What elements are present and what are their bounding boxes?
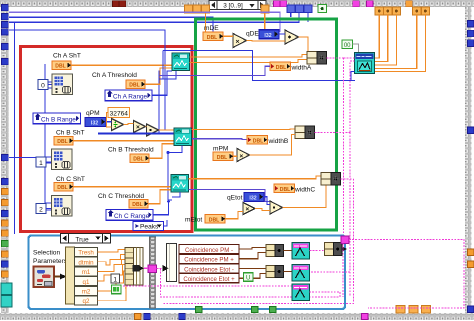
svg-text:DBL: DBL bbox=[209, 217, 219, 223]
case structure border bbox=[29, 236, 346, 310]
express VI icon 3 (Ch C) bbox=[171, 175, 189, 193]
tunnel magenta on bottom border bbox=[362, 314, 368, 320]
wire round out to right bbox=[159, 129, 193, 131]
svg-text:mDE: mDE bbox=[204, 25, 219, 32]
wire blue bus vertical inside red frame bbox=[14, 22, 16, 234]
svg-text:Ch C Range: Ch C Range bbox=[114, 213, 150, 220]
svg-text:DBL: DBL bbox=[132, 202, 142, 208]
local variable Coincidence PM minus bbox=[179, 245, 239, 254]
local variable Ch A ShT DBL bbox=[52, 61, 71, 70]
long wire violet from left tunnel to green region bbox=[9, 12, 280, 32]
wire magenta branch to express3 bbox=[123, 285, 292, 287]
tunnel magenta on top border right bbox=[353, 1, 359, 7]
tunnel orange on top border bbox=[406, 1, 412, 7]
svg-text:3 [0..9]: 3 [0..9] bbox=[223, 2, 243, 9]
wire gray 00 to VI top bbox=[353, 44, 359, 53]
sequence structure left border (film strip) bbox=[1, 7, 8, 313]
tunnel green on case bottom edge 3 bbox=[270, 307, 277, 313]
svg-text:widthC: widthC bbox=[294, 187, 315, 194]
wire magenta tunnel case top right bbox=[341, 236, 349, 244]
free orange tunnels above bottom border bbox=[396, 305, 405, 313]
wire blue range A up to icon bbox=[152, 71, 172, 95]
bundle node widthA bbox=[307, 52, 327, 65]
wires brown coincidence to compare node1 bbox=[239, 248, 266, 279]
wire orange pair entering green (chB row) bbox=[192, 128, 296, 131]
ring constant Ch C Range bbox=[106, 210, 153, 221]
wire orange ChC ShT to icon3 bbox=[73, 186, 171, 188]
svg-text:Peaks: Peaks bbox=[140, 224, 159, 231]
wire divide to multiply bbox=[124, 124, 134, 125]
wire magenta loop down right bbox=[161, 269, 341, 297]
local variable widthC DBL bbox=[274, 184, 295, 193]
unbundle row q1 bbox=[75, 277, 98, 286]
wire blue VI output to left bbox=[351, 72, 355, 81]
wire magenta widthA into VI bbox=[344, 57, 355, 59]
svg-text:DBL: DBL bbox=[129, 83, 139, 89]
inner frame divider bar bbox=[150, 237, 156, 308]
wire orange entering green (chC row) bbox=[189, 176, 322, 179]
local variable Ch C ShT DBL bbox=[54, 183, 73, 192]
wire mEtot to multiply bbox=[225, 212, 243, 219]
wires unbundle rows to build node bbox=[98, 250, 129, 301]
wire mPM to multiply bbox=[233, 155, 237, 157]
svg-text:qDE: qDE bbox=[246, 31, 259, 38]
svg-text:widthB: widthB bbox=[268, 138, 289, 145]
wire blue entering green (chC) bbox=[189, 190, 271, 202]
svg-text:×: × bbox=[136, 124, 140, 131]
tunnel green on case bottom edge 1 bbox=[196, 307, 203, 313]
sequence structure bottom border (film strip) bbox=[0, 313, 474, 320]
local variable mPM DBL bbox=[213, 152, 233, 161]
wire round out right then down bbox=[299, 37, 309, 52]
boolean constant 00 bbox=[342, 40, 353, 48]
wire multiply to round bbox=[146, 126, 147, 128]
svg-text:×: × bbox=[246, 206, 250, 213]
free orange tunnels below top border (mDE/qDE feeds) bbox=[185, 5, 269, 13]
wire orange ChC Threshold up bbox=[148, 190, 171, 204]
green boolean constant box below top border bbox=[318, 5, 326, 13]
magenta tunnel on divider bbox=[148, 265, 156, 273]
svg-text:1: 1 bbox=[39, 160, 43, 167]
wire orange ChB ShT to icon2 bbox=[73, 140, 174, 142]
wire magenta widthA down run bbox=[343, 58, 345, 236]
svg-text:Ch B Range: Ch B Range bbox=[41, 116, 76, 123]
wire magenta into express2 from run bbox=[310, 271, 351, 273]
wire blue below icon3 bbox=[172, 192, 180, 197]
wire blue entering green (chB) bbox=[192, 138, 247, 141]
wire magenta along top right to right border bbox=[349, 240, 464, 309]
svg-text:Coincidence PM +: Coincidence PM + bbox=[184, 257, 234, 264]
boolean array constant green bbox=[112, 285, 122, 294]
frame red rectangle bbox=[21, 47, 193, 232]
wire violet widthA feed bbox=[159, 66, 270, 75]
wire express1 to node3 bbox=[310, 250, 325, 252]
wire qPM into divide bbox=[105, 121, 112, 123]
svg-text:Ch A ShT: Ch A ShT bbox=[53, 53, 81, 60]
wire 2 to icon C bbox=[46, 208, 52, 210]
bundle node widthC bbox=[321, 173, 341, 186]
right border tunnels (blue) bbox=[467, 21, 474, 134]
peak detect express VI (top right) bbox=[355, 53, 375, 74]
wire magenta widthB bundle out bbox=[315, 131, 351, 133]
wire blue entering green (chA) bbox=[163, 51, 355, 81]
compare node 3 (right) bbox=[325, 243, 343, 256]
unbundle row Tresh bbox=[75, 248, 98, 257]
svg-text:mEtot: mEtot bbox=[185, 217, 202, 224]
local variable qPM I32 bbox=[85, 118, 106, 127]
ring constant Ch A Range bbox=[105, 90, 152, 101]
local variable mEtot DBL bbox=[205, 215, 225, 224]
svg-text:DBL: DBL bbox=[133, 157, 143, 163]
svg-text:2: 2 bbox=[39, 207, 43, 214]
svg-text:Ch A Range: Ch A Range bbox=[113, 93, 148, 100]
wire magenta widthC bundle out bbox=[341, 178, 354, 180]
numeric constant 1 bbox=[36, 157, 46, 167]
local variable widthA DBL bbox=[270, 62, 291, 71]
wire blue vertical cluster feed bbox=[45, 64, 51, 210]
svg-text:DBL: DBL bbox=[57, 139, 67, 145]
wire multiply B out to bundle bbox=[250, 135, 296, 156]
wire magenta into express3 bbox=[310, 292, 341, 297]
index array node (case right half) bbox=[163, 244, 177, 282]
wire blue horizontal from left tunnel y157 bbox=[9, 157, 45, 159]
boolean constant green (case) bbox=[244, 273, 254, 281]
orange dot tunnels top right group2 bbox=[413, 7, 430, 15]
svg-text:I32: I32 bbox=[264, 33, 271, 39]
numeric constant 2 bbox=[36, 204, 46, 214]
wire magenta tunnel onward bbox=[157, 268, 167, 270]
wire orange tunnel to qDE I32 bbox=[264, 13, 266, 30]
case selector label True bbox=[61, 234, 111, 244]
left border tunnels (orange) bbox=[2, 189, 9, 278]
svg-text:Coincidence PM -: Coincidence PM - bbox=[185, 247, 233, 254]
wire magenta widthA bundle out bbox=[327, 57, 344, 59]
wire blue range C bbox=[153, 202, 169, 215]
wire orange ChB Threshold bbox=[149, 144, 174, 159]
wire orange tunnel drops to peak-detect VI bbox=[375, 15, 426, 72]
sequence structure right border (film strip) bbox=[465, 7, 472, 313]
express VI coincidence 3 bbox=[292, 284, 310, 301]
wire magenta widthB down run bbox=[349, 132, 351, 296]
node3 output arrow bbox=[343, 247, 348, 252]
express VI icon 1 (Ch A) bbox=[172, 53, 190, 71]
svg-text:×: × bbox=[240, 153, 244, 160]
numeric constant 1 (case) bbox=[111, 274, 120, 283]
svg-text:qPM: qPM bbox=[86, 110, 100, 117]
svg-text:I32: I32 bbox=[249, 196, 256, 202]
tunnel dark red pair on top border bbox=[113, 1, 119, 7]
ring constant Ch B Range bbox=[33, 113, 81, 124]
orange dot tunnels top right group1 bbox=[375, 7, 401, 15]
local variable Ch A Threshold DBL bbox=[126, 80, 145, 89]
wire blue stubs from top blue tunnels bbox=[290, 12, 292, 17]
svg-text:Ch B Threshold: Ch B Threshold bbox=[108, 147, 154, 154]
wire blue thick under triangles bbox=[98, 132, 192, 134]
express VI icon 2 (Ch B) bbox=[174, 128, 192, 146]
svg-text:DBL: DBL bbox=[55, 64, 65, 70]
wire blue peaks up bbox=[164, 220, 168, 226]
local variable Coincidence Etot plus bbox=[179, 274, 239, 283]
free blue tunnels below top border bbox=[287, 5, 312, 12]
svg-text:q2: q2 bbox=[83, 298, 90, 305]
svg-text:q1: q1 bbox=[83, 279, 90, 286]
wire multiply to add bbox=[255, 209, 270, 211]
wire 1 to icon B bbox=[46, 161, 52, 163]
wire 32764 into divide bbox=[107, 113, 112, 128]
svg-text:DBL: DBL bbox=[280, 187, 290, 193]
wire subVI to unbundle with arrow bbox=[54, 276, 65, 278]
svg-text:widthA: widthA bbox=[291, 65, 312, 72]
wire magenta node to tunnel bbox=[144, 267, 148, 269]
ring constant Peaks dropdown bbox=[133, 222, 164, 231]
divide triangle bbox=[112, 119, 124, 131]
sequence structure top border (film strip) bbox=[0, 0, 474, 7]
wire qDE I32 to round bbox=[279, 33, 285, 35]
svg-text:dtmin: dtmin bbox=[78, 259, 94, 266]
local variable qEtot I32 bbox=[244, 193, 264, 202]
svg-text:00: 00 bbox=[344, 43, 351, 49]
frame green rectangle bbox=[196, 19, 337, 230]
wire orange ChA ShT to icon1 bbox=[71, 64, 172, 66]
local variable mDE DBL bbox=[203, 32, 223, 41]
long wire blue upper bbox=[9, 17, 213, 34]
subVI icon Selection Parameters bbox=[34, 267, 55, 288]
left border tunnel (green) bbox=[2, 241, 9, 247]
tunnel green on case bottom edge 2 bbox=[252, 307, 259, 313]
round-to-nearest triangle bbox=[147, 124, 159, 136]
local variable Coincidence Etot minus bbox=[179, 264, 239, 273]
wire magenta from tunnel down inside case bbox=[342, 244, 344, 298]
unbundle row q2 bbox=[75, 296, 98, 305]
wire add out to bundle C bbox=[283, 186, 327, 208]
svg-text:Parameters: Parameters bbox=[33, 258, 68, 265]
unbundle by name left column bbox=[66, 247, 75, 304]
tunnel orange right border lower bbox=[467, 249, 473, 255]
multiply triangle mDE bbox=[233, 34, 247, 48]
svg-text:qEtot: qEtot bbox=[227, 195, 243, 202]
unbundle row m2 bbox=[75, 286, 98, 295]
long wire blue second bbox=[9, 12, 299, 22]
svg-text:0: 0 bbox=[41, 83, 45, 90]
array-to-cluster icon A bbox=[52, 74, 73, 95]
array-to-cluster icon B bbox=[52, 149, 73, 170]
multiply triangle mEtot bbox=[243, 203, 255, 215]
wire 0 to icon A bbox=[48, 84, 52, 86]
express VI coincidence 2 bbox=[292, 265, 310, 282]
local variable Ch B ShT DBL bbox=[54, 137, 73, 146]
svg-text:m1: m1 bbox=[82, 269, 91, 276]
wire magenta widthB rises into VI bbox=[350, 61, 355, 132]
wire node1 to express1 bbox=[284, 250, 293, 252]
sequence selector label "3 [0..9]" bbox=[209, 1, 266, 10]
multiply triangle mPM bbox=[237, 149, 250, 162]
numeric constant 32764 bbox=[108, 108, 130, 118]
wire node2 to express2 bbox=[284, 271, 293, 273]
compare node 2 bbox=[266, 266, 284, 278]
svg-text:U: U bbox=[246, 276, 250, 282]
local variable widthB DBL bbox=[247, 136, 268, 145]
svg-text:DBL: DBL bbox=[207, 35, 217, 41]
wire mDE to multiply bbox=[223, 35, 233, 37]
wire magenta widthC down run bbox=[162, 179, 354, 304]
wire multiply to round low bbox=[247, 40, 286, 43]
local variable Ch B Threshold DBL bbox=[130, 154, 149, 163]
svg-text:Coincidence Etot +: Coincidence Etot + bbox=[183, 276, 235, 283]
svg-text:Ch B ShT: Ch B ShT bbox=[56, 130, 85, 137]
wire orange ChA Threshold bbox=[145, 68, 172, 84]
local variable Coincidence PM plus bbox=[179, 254, 239, 263]
wire orange tunnel to mDE bbox=[205, 13, 207, 32]
svg-text:I32: I32 bbox=[91, 121, 98, 127]
bottom border colored tunnels bbox=[135, 314, 141, 320]
multiply triangle bbox=[134, 121, 146, 133]
svg-text:Selection: Selection bbox=[33, 250, 60, 257]
svg-text:32764: 32764 bbox=[110, 111, 129, 118]
unbundle row m1 bbox=[75, 267, 98, 276]
svg-text:Coincidence Etot -: Coincidence Etot - bbox=[184, 266, 234, 273]
svg-text:DBL: DBL bbox=[57, 185, 67, 191]
svg-text:True: True bbox=[75, 236, 89, 243]
svg-text:1: 1 bbox=[113, 276, 117, 283]
array-to-cluster icon C bbox=[52, 196, 73, 217]
svg-text:Ch A Threshold: Ch A Threshold bbox=[92, 72, 137, 79]
svg-text:×: × bbox=[236, 38, 240, 45]
wire blue vertical below icon1 bbox=[158, 71, 160, 134]
local variable Ch C Threshold DBL bbox=[129, 200, 148, 209]
numeric constant 0 bbox=[38, 80, 48, 90]
tunnel blue right border bottom bbox=[467, 306, 473, 312]
wire blue horizontal third from left border bbox=[9, 30, 165, 130]
svg-text:DBL: DBL bbox=[276, 65, 286, 71]
bundle node widthB bbox=[295, 126, 315, 139]
left border tunnels (blue) bbox=[2, 5, 9, 268]
left border teal boxes bbox=[1, 283, 12, 295]
svg-text:DBL: DBL bbox=[253, 138, 263, 144]
tunnel magenta pair on top border bbox=[274, 1, 280, 7]
round triangle qDE bbox=[285, 30, 299, 44]
wire qEtot I32 to add bbox=[264, 197, 270, 205]
svg-text:m2: m2 bbox=[82, 289, 91, 296]
wire blue below icon2 bbox=[168, 146, 182, 201]
express VI coincidence 1 bbox=[292, 243, 310, 260]
compare node 1 bbox=[266, 245, 284, 257]
svg-text:Tresh: Tresh bbox=[78, 250, 94, 257]
svg-text:DBL: DBL bbox=[217, 155, 227, 161]
build cluster array node column bbox=[125, 248, 144, 286]
wire orange pair entering green left (chA row) bbox=[190, 55, 308, 58]
unbundle row dtmin bbox=[75, 257, 98, 266]
local variable qDE I32 bbox=[259, 30, 279, 39]
add triangle Etot bbox=[270, 201, 283, 214]
